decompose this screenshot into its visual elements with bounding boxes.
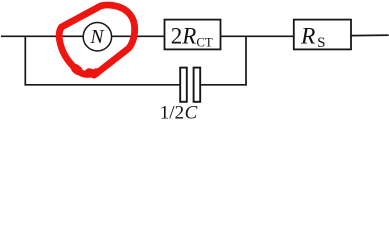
wire: 2RCT to RS top rail [221, 35, 295, 37]
red annotation: thicker blob at bottom tip [89, 73, 97, 75]
wire: right vertical riser to top rail [245, 36, 247, 85]
red annotation: hand-drawn marker loop circled around source N [59, 5, 135, 74]
source N: circle symbol [83, 23, 111, 51]
wire: left vertical drop at junction x=25 [24, 36, 26, 85]
wire: bottom branch, junction to capacitor [25, 84, 180, 86]
capacitor C (1/2C) left plate [180, 68, 187, 102]
svg-text:N: N [89, 27, 104, 48]
wire: left input lead [1, 35, 84, 37]
red annotation: thicker blob at bottom-left corner [76, 69, 79, 71]
wire: bottom branch, capacitor to right riser [201, 84, 247, 86]
resistor R_S: box body [294, 20, 351, 50]
resistor 2R_CT: box body [165, 20, 221, 50]
capacitor C (1/2C) right plate [194, 68, 201, 102]
wire: right output lead [351, 34, 389, 36]
wire: N to 2RCT resistor [112, 35, 165, 37]
svg-text:1/2C: 1/2C [160, 103, 198, 124]
